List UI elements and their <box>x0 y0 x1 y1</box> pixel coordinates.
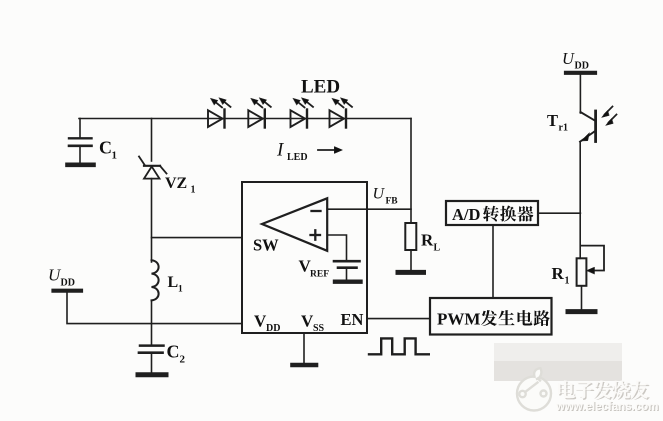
LED D1 <box>208 98 231 128</box>
pin label V_SS <box>301 312 325 335</box>
wire emitter down to R1 <box>579 142 581 259</box>
ground (V_SS) <box>293 363 317 368</box>
phototransistor Tr1 <box>547 107 617 142</box>
svg-text:DD: DD <box>61 278 75 289</box>
svg-text:1: 1 <box>178 285 183 295</box>
label I_LED with current arrow <box>276 140 343 164</box>
LED D2 <box>248 98 270 128</box>
wire A/D to PWM block <box>492 225 494 298</box>
svg-text:1: 1 <box>112 150 118 162</box>
wire VZ1 riser from top rail <box>151 119 153 162</box>
watermark text www.elecfans.com <box>555 401 659 414</box>
wire top rail <box>79 118 411 120</box>
zener diode VZ1 <box>139 157 196 196</box>
supply U_DD (left) <box>48 266 81 291</box>
block PWM generator <box>430 298 552 335</box>
svg-text:SS: SS <box>313 323 325 334</box>
svg-text:FB: FB <box>386 197 399 207</box>
watermark elecfans logo <box>517 368 551 410</box>
wire inverting input to U_FB <box>327 208 411 210</box>
svg-text:L: L <box>434 243 441 254</box>
svg-text:DD: DD <box>266 323 280 334</box>
ground (R1) <box>568 309 595 314</box>
resistor RL <box>405 223 440 270</box>
svg-text:EN: EN <box>341 310 364 329</box>
wire left riser to C1 <box>79 119 81 139</box>
svg-text:PWM: PWM <box>437 310 480 329</box>
svg-text:L: L <box>168 274 179 291</box>
svg-text:U: U <box>373 186 386 203</box>
LED D4 <box>330 98 353 128</box>
svg-text:R: R <box>421 231 434 250</box>
svg-text:A/D: A/D <box>452 205 481 224</box>
svg-text:U: U <box>562 49 575 68</box>
capacitor VREF <box>299 257 361 282</box>
resistor R1 (adjustable) <box>552 246 605 287</box>
watermark text 电子发烧友 <box>558 380 650 400</box>
svg-text:1: 1 <box>191 185 196 196</box>
svg-text:www.elecfans.com: www.elecfans.com <box>555 401 658 413</box>
wire V_SS to ground <box>303 333 305 363</box>
op-amp comparator <box>253 198 327 254</box>
svg-text:DD: DD <box>575 61 589 72</box>
watermark backdrop <box>494 343 622 381</box>
IC U1 box <box>242 182 367 333</box>
supply U_DD (right) <box>562 49 595 73</box>
svg-text:LED: LED <box>301 77 340 98</box>
pin label V_DD <box>254 312 280 335</box>
wire U_DD to VDD pin <box>67 293 242 324</box>
svg-text:r1: r1 <box>559 123 568 134</box>
svg-text:T: T <box>547 111 558 130</box>
svg-text:2: 2 <box>180 354 186 366</box>
capacitor C2 <box>138 342 186 375</box>
block A/D converter <box>446 201 538 225</box>
svg-text:1: 1 <box>565 276 570 287</box>
wire VZ1 to L1 <box>151 179 153 262</box>
wire EN to PWM block <box>367 318 430 320</box>
wire A/D output to transistor column <box>538 212 580 214</box>
ground (RL) <box>398 270 424 275</box>
wire right riser to RL <box>410 119 412 224</box>
wire L1 to C2 node <box>151 300 153 345</box>
svg-text:C: C <box>99 138 112 158</box>
node U_FB <box>373 186 399 207</box>
svg-text:REF: REF <box>310 270 329 280</box>
wire U_DD to collector <box>579 75 581 113</box>
svg-text:VZ: VZ <box>165 175 187 192</box>
inductor L1 <box>152 260 184 300</box>
PWM waveform symbol <box>369 338 429 354</box>
capacitor C1 <box>68 138 118 165</box>
svg-text:I: I <box>276 140 285 161</box>
wire SW input <box>152 237 243 239</box>
LED D3 <box>291 98 314 128</box>
svg-text:LED: LED <box>287 152 308 163</box>
wire R1 to ground <box>581 286 583 309</box>
wire noninverting input to VREF cap <box>327 235 346 260</box>
svg-text:R: R <box>552 264 565 283</box>
svg-text:SW: SW <box>253 236 279 255</box>
svg-text:C: C <box>167 342 180 362</box>
